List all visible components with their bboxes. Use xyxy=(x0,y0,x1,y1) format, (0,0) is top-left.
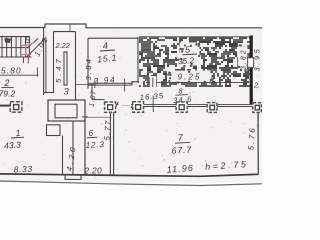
room 4: left wall xyxy=(87,38,89,88)
svg-text:43.3: 43.3 xyxy=(4,140,22,151)
staircase Б: break diagonal short xyxy=(27,38,39,48)
dimension 9.25 line xyxy=(146,81,243,83)
shaft: inner rect xyxy=(55,104,77,118)
red section mark (pink pencil) xyxy=(21,42,36,55)
svg-text:3.95: 3.95 xyxy=(253,47,262,72)
room 5: white patch for label xyxy=(180,43,200,66)
bottom notch xyxy=(65,175,81,180)
corridor 3: right wall xyxy=(75,32,77,100)
white gap at dim tick xyxy=(150,76,156,87)
dimension 5.80 end tick xyxy=(36,68,38,77)
room 5: pixelated redaction block xyxy=(139,37,250,87)
dim line under 3.84 xyxy=(76,84,95,86)
corridor 3: left wall xyxy=(53,32,55,93)
column break in right wall xyxy=(248,58,254,68)
svg-text:12.3: 12.3 xyxy=(85,140,105,150)
wall: room 7 right xyxy=(257,112,259,175)
room 4: bottom jog to room5 xyxy=(132,82,139,85)
wall: room1/6 divider left line xyxy=(62,136,64,175)
room 4: bottom wall double xyxy=(88,82,132,84)
dimension tick right of 3.94 xyxy=(124,79,126,92)
svg-text:5.76: 5.76 xyxy=(247,126,258,151)
corridor 3: top wall xyxy=(54,31,76,33)
svg-text:3: 3 xyxy=(64,87,70,98)
column B4 xyxy=(207,103,217,113)
dimension 9.25 left tick xyxy=(152,78,154,88)
room 4: top wall xyxy=(88,37,138,39)
paper speckles xyxy=(178,125,181,128)
svg-text:8.33: 8.33 xyxy=(13,164,33,175)
svg-text:6: 6 xyxy=(89,129,94,138)
room 5: white patch for 3.82 xyxy=(238,43,248,71)
column B3 xyxy=(176,102,187,112)
paper tint inside plan xyxy=(0,28,262,183)
svg-text:5.77: 5.77 xyxy=(103,119,113,141)
svg-text:2.22: 2.22 xyxy=(55,41,70,50)
svg-text:3.82: 3.82 xyxy=(241,48,248,70)
column B1 xyxy=(105,102,116,112)
room 1 label: bar xyxy=(11,136,24,139)
staircase Б: dimension ticks below xyxy=(23,57,25,63)
room 6: top line xyxy=(85,116,112,118)
room 2 label: bar xyxy=(2,87,14,89)
staircase Б: landing line xyxy=(0,47,29,49)
svg-text:3.94: 3.94 xyxy=(93,74,116,86)
staircase Б: steps xyxy=(2,37,29,57)
staircase Б: ink blob on step xyxy=(5,38,12,43)
page frame line xyxy=(0,181,262,186)
wall: room 5 right thick bar xyxy=(250,36,253,105)
dim tick 16.35/34.6 xyxy=(152,96,154,113)
svg-text:8: 8 xyxy=(179,87,183,96)
column B5 (corner) xyxy=(253,103,261,113)
room 5: white patch for 9.25 xyxy=(167,71,212,83)
wall: bottom exterior left section xyxy=(0,174,258,176)
dimension 5.80 line xyxy=(0,74,39,76)
wall: stair right wall (double) xyxy=(43,28,45,96)
svg-text:2.: 2. xyxy=(253,81,260,90)
room 6 label: bar xyxy=(87,136,98,139)
room 5: top wall xyxy=(139,36,250,38)
svg-text:9.25: 9.25 xyxy=(178,73,202,82)
room 4: right wall xyxy=(137,37,139,83)
svg-text:5.80: 5.80 xyxy=(1,67,22,76)
svg-text:11.96: 11.96 xyxy=(166,163,194,175)
staircase Б: break diagonal long xyxy=(27,39,45,57)
wire: outer top wall xyxy=(0,24,262,28)
room 6: left wall xyxy=(84,117,86,175)
wall: step between room4 and colonnade xyxy=(91,85,93,100)
wall: room6/7 divider (double) xyxy=(109,112,111,176)
room 6: top-left tick xyxy=(82,116,88,118)
svg-text:67.7: 67.7 xyxy=(171,145,192,156)
paper background xyxy=(0,0,262,221)
wall: cap under stair wall xyxy=(44,92,54,94)
room 5 label: bar xyxy=(183,53,198,56)
column B2 xyxy=(133,102,144,112)
dimension tick left of 3.94 xyxy=(94,81,96,89)
column at room1/2 wall xyxy=(10,102,22,112)
staircase Б: bottom line xyxy=(0,56,32,58)
room 8 label: bar xyxy=(176,94,189,97)
svg-text:3.84: 3.84 xyxy=(84,57,93,81)
room 7 label: bar xyxy=(175,141,190,144)
svg-text:2: 2 xyxy=(4,78,10,88)
wall: room1/room2 divider xyxy=(0,105,11,107)
noise speckle over patch edges xyxy=(196,43,198,45)
corridor 3: partition bar xyxy=(64,52,67,85)
svg-text:5.47: 5.47 xyxy=(54,56,63,83)
door jamb tick right xyxy=(131,103,136,109)
svg-text:79.2: 79.2 xyxy=(0,89,15,99)
step rect below shaft xyxy=(47,125,61,136)
dim tick above 2.22 xyxy=(69,24,71,31)
staircase Б: top line xyxy=(0,36,30,38)
shaft: outer rect xyxy=(48,100,85,121)
colonnade: double wall line xyxy=(116,104,253,106)
door jamb tick left xyxy=(115,102,119,109)
wall: room1/6 divider right line xyxy=(72,121,74,175)
room 4 label: bar xyxy=(100,50,115,51)
svg-text:15.1: 15.1 xyxy=(97,52,118,64)
